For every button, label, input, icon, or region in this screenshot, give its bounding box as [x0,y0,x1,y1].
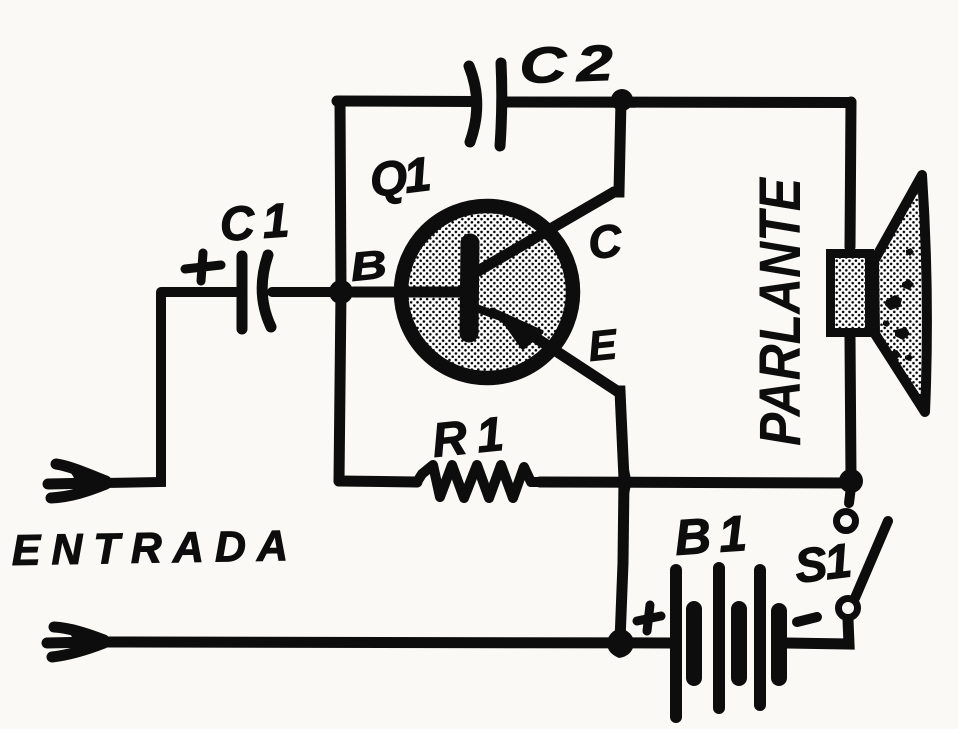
cell 2 long plate [713,568,725,708]
label plus B1 [637,605,661,631]
lever [855,521,888,598]
speaker cone [874,175,927,412]
capacitor C2 [469,63,502,146]
wire R1 to right rail [540,482,851,483]
label plus C1 [185,253,221,281]
input arrowhead upper [48,464,106,498]
wire left rail to R1 [339,481,417,482]
wire left rail [339,101,341,481]
speaker PARLANTE body [831,175,927,412]
bottom contact circle [839,599,858,618]
resistor R1 [417,465,540,498]
cell 3 short plate [771,611,787,678]
svg-text:B1: B1 [673,505,757,566]
cell 2 short plate [731,609,747,678]
cell 1 short plate [686,609,702,678]
wire right rail (top wire down to speaker) [850,102,851,247]
cell 3 long plate [754,570,766,705]
cell 1 long plate [670,570,682,717]
svg-text:S1: S1 [792,535,853,594]
wire emitter vertical [617,391,624,641]
wire input lower (bottom rail) [103,642,672,643]
svg-text:C2: C2 [518,35,624,94]
node bottom junction [607,628,634,658]
wire input upper: vertical drop and arrow shaft [104,292,161,483]
wire right rail (speaker to junction) [850,337,851,478]
node base junction B [329,280,353,304]
base bar [469,243,470,333]
svg-text:PARLANTE: PARLANTE [748,176,813,446]
wire collector vertical [614,101,621,192]
transistor Q1 [353,192,617,391]
wire top rail left segment (C2 left lead) [337,96,474,108]
label minus B1 [797,617,817,622]
battery B1 [676,568,779,717]
collector lead inside [478,192,614,271]
top contact circle [837,512,856,531]
svg-text:C: C [586,214,625,269]
input arrowhead lower [47,627,104,657]
wire top rail right segment (C2 right lead to speaker) [507,97,851,109]
wire battery minus to S1 [786,620,849,644]
node collector top junction [611,89,633,111]
wire C1 right lead to base node [272,287,341,297]
node right rail junction [839,469,863,493]
node emitter junction on R1 wire [619,458,631,504]
cone blotches [883,248,915,395]
capacitor C1 [242,255,271,329]
base lead inside [353,287,460,298]
switch S1 [837,487,889,618]
stub from junction [849,487,851,503]
svg-text:Q1: Q1 [367,148,432,208]
emitter lead inside with arrow [479,309,506,319]
svg-text:ENTRADA: ENTRADA [11,522,299,575]
svg-text:C1: C1 [218,194,299,252]
wire C1 left lead [162,287,238,297]
svg-text:B: B [348,241,389,290]
svg-text:R1: R1 [430,407,516,468]
